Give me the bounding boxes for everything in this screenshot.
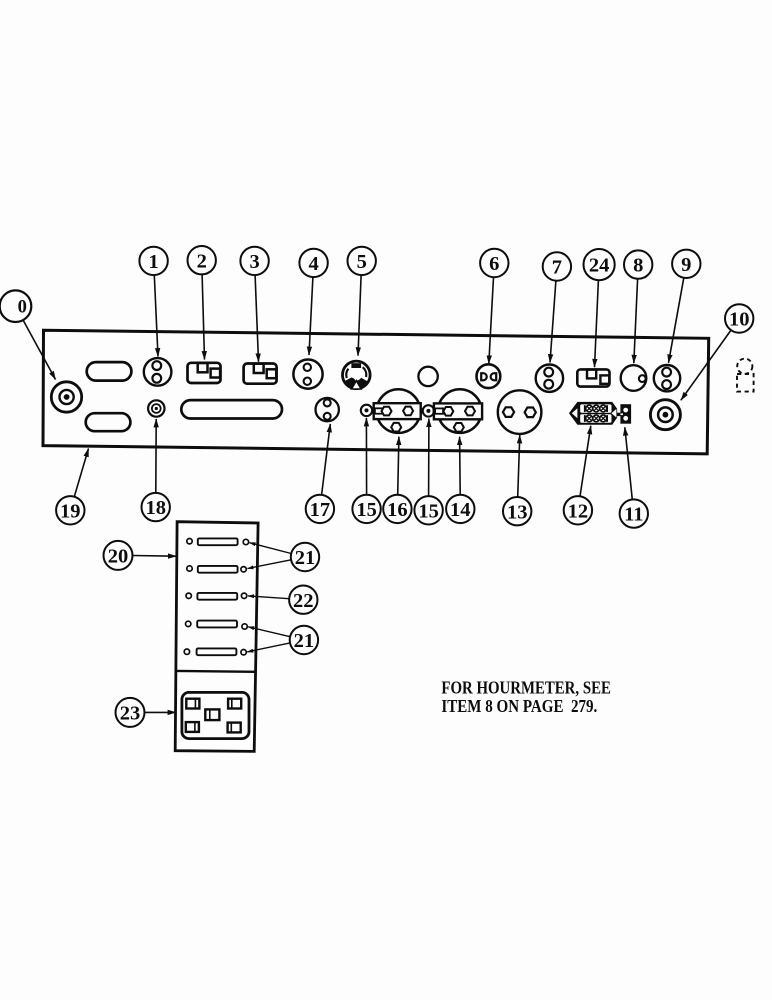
item 24 keyed switch hole — [577, 369, 609, 386]
leader 21 to row 4 — [248, 627, 290, 637]
item 1 twin-contact socket — [144, 358, 172, 386]
item 7 twin-contact socket — [536, 365, 563, 392]
leader line left callout 10 — [23, 320, 55, 379]
callout 13 balloon — [503, 497, 531, 525]
item 14 gauge — [433, 389, 483, 433]
svg-text:7: 7 — [552, 257, 562, 279]
svg-text:10: 10 — [729, 309, 750, 331]
callout 1 balloon — [139, 247, 167, 275]
callout 11 balloon — [620, 499, 648, 527]
leader line callout 3 — [255, 275, 258, 362]
item 5 bayonet lamp socket — [343, 361, 371, 389]
svg-text:3: 3 — [249, 251, 259, 273]
leader line callout 15 left — [365, 418, 367, 495]
svg-text:FOR HOURMETER, SEE: FOR HOURMETER, SEE — [441, 678, 611, 698]
item 6 two-pin connector hole — [477, 364, 501, 388]
fuse slot row 3 — [186, 593, 247, 600]
callout 8 balloon — [624, 250, 652, 278]
item 8 socket with side contact — [621, 365, 647, 391]
left indicator light bullseye — [51, 382, 81, 412]
leader line callout 16 — [398, 437, 399, 495]
svg-text:18: 18 — [145, 497, 166, 519]
leader line callout 11 — [625, 427, 633, 499]
item 15 left mounting bushing — [361, 405, 372, 416]
svg-text:21: 21 — [294, 630, 315, 652]
svg-text:15: 15 — [356, 499, 377, 521]
callout 17 balloon — [306, 495, 334, 523]
fuse slot row 5 — [184, 648, 246, 655]
svg-text:20: 20 — [108, 546, 129, 568]
svg-text:17: 17 — [310, 499, 331, 521]
svg-text:23: 23 — [120, 703, 141, 725]
svg-text:ITEM 8 ON PAGE 279.: ITEM 8 ON PAGE 279. — [441, 696, 597, 716]
callout 23 balloon — [116, 698, 145, 727]
slot hole lower left — [86, 413, 131, 431]
svg-text:19: 19 — [60, 500, 81, 522]
item 3 keyed switch hole — [244, 364, 277, 384]
fuse console outline — [175, 522, 258, 752]
right indicator light bullseye — [650, 400, 680, 430]
leader line callout 10 — [681, 330, 731, 400]
item 16 gauge — [372, 389, 421, 433]
leader 22 to row 3 — [248, 596, 289, 599]
fuse slot row 2 — [187, 566, 247, 573]
svg-text:21: 21 — [295, 547, 316, 569]
item 4 twin-contact socket — [293, 360, 322, 389]
svg-text:4: 4 — [308, 253, 318, 275]
leader line callout 23 — [145, 711, 176, 713]
callout 7 balloon — [543, 252, 571, 280]
item 9 twin-contact socket — [654, 365, 680, 391]
long centre slot hole — [181, 400, 282, 418]
callout 15 balloon (left) — [352, 495, 380, 523]
svg-text:24: 24 — [589, 255, 610, 277]
leader line callout 24 — [595, 280, 599, 367]
callout 3 balloon — [240, 247, 268, 275]
svg-text:8: 8 — [633, 255, 643, 277]
callout 21 balloon (upper) — [291, 543, 319, 571]
callout 14 balloon — [446, 495, 474, 523]
callout 21 balloon (lower) — [290, 626, 318, 654]
dashed phantom knob — [737, 359, 754, 392]
callout 18 balloon — [142, 493, 170, 521]
callout 10 left balloon (cut by page edge) — [0, 290, 31, 322]
leader 21 to row 5 — [247, 643, 290, 652]
svg-text:14: 14 — [450, 499, 471, 521]
leader line callout 7 — [550, 281, 556, 363]
leader line callout 6 — [489, 277, 494, 364]
console divider line — [176, 670, 255, 673]
leader line callout 14 — [459, 437, 462, 495]
callout 9 balloon — [672, 250, 700, 278]
leader line callout 12 — [580, 426, 591, 497]
item 23 power outlet block — [182, 692, 249, 738]
svg-text:13: 13 — [507, 501, 528, 523]
leader line callout 18 — [155, 419, 157, 493]
svg-text:22: 22 — [293, 590, 314, 612]
leader line callout 13 — [518, 435, 520, 497]
leader line callout 9 — [669, 278, 684, 363]
item 17 twin-contact socket — [316, 398, 339, 421]
item 18 small grommet — [148, 400, 164, 416]
item 13 twin-stud hole — [498, 390, 542, 434]
callout 16 balloon — [383, 495, 411, 523]
item 2 keyed switch hole — [188, 363, 221, 383]
item 15 right mounting bushing — [421, 405, 434, 416]
leader line callout 2 — [202, 274, 204, 359]
slot hole upper left — [87, 362, 132, 381]
leader line callout 15 right — [428, 419, 430, 497]
callout 20 balloon — [104, 541, 133, 570]
callout 12 balloon — [564, 496, 592, 524]
callout 22 balloon — [289, 586, 317, 614]
callout 15 balloon (right) — [414, 496, 442, 524]
svg-text:2: 2 — [197, 250, 207, 272]
leader line callout 5 — [358, 275, 361, 356]
callout 24 balloon — [584, 249, 615, 280]
leader line callout 4 — [309, 277, 313, 355]
leader line callout 17 — [322, 424, 331, 495]
callout 6 balloon — [480, 249, 508, 277]
callout 19 balloon — [56, 496, 84, 524]
svg-text:5: 5 — [357, 251, 367, 273]
leader line callout 19 — [74, 449, 88, 497]
callout 2 balloon — [188, 246, 216, 274]
leader 21 to row 1 — [250, 543, 292, 554]
leader line callout 1 — [154, 275, 158, 356]
leader line callout 20 — [133, 555, 177, 558]
fuse slot row 4 — [186, 621, 248, 630]
item 11 connector plug — [620, 404, 631, 424]
svg-text:12: 12 — [568, 500, 589, 522]
svg-text:6: 6 — [489, 253, 499, 275]
instrument panel outline — [43, 330, 709, 454]
plain round hole — [418, 367, 437, 386]
svg-text:1: 1 — [148, 251, 158, 273]
callout 10 balloon — [725, 304, 753, 332]
svg-text:11: 11 — [624, 504, 643, 526]
svg-text:15: 15 — [418, 500, 439, 522]
item 12 ignition switch connector — [570, 403, 621, 424]
leader 21 to row 2 — [248, 560, 292, 569]
svg-text:9: 9 — [681, 254, 691, 276]
callout 5 balloon — [348, 247, 376, 275]
svg-text:16: 16 — [387, 499, 408, 521]
fuse slot row 1 — [187, 538, 249, 545]
hourmeter note text — [441, 678, 611, 716]
callout 4 balloon — [299, 249, 327, 277]
svg-text:0: 0 — [18, 298, 27, 318]
leader line callout 8 — [634, 279, 638, 363]
